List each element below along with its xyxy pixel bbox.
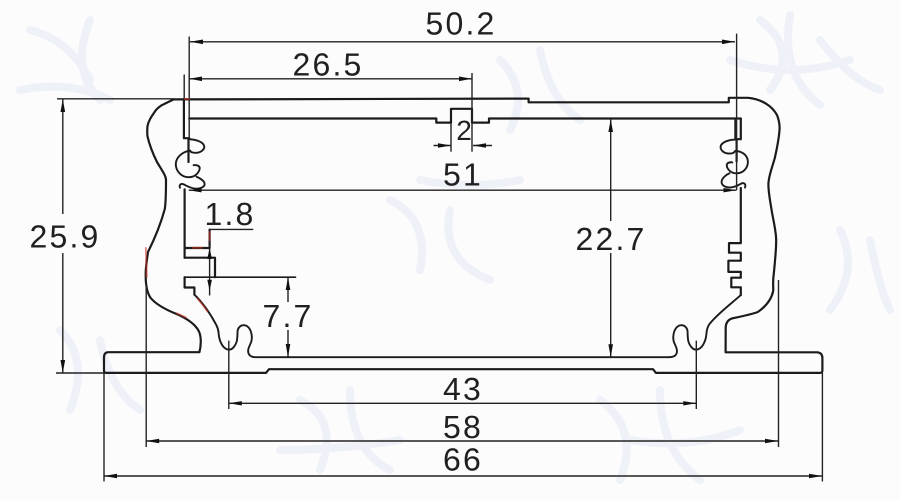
extension x=146.2 (58 left) bbox=[145, 279, 147, 447]
right hanging tab bbox=[735, 119, 740, 140]
extension bottom left horizontal bbox=[56, 372, 104, 374]
svg-text:43: 43 bbox=[443, 371, 483, 407]
25.9 arrows bbox=[61, 99, 66, 112]
left screw boss C (lower hook) bbox=[180, 177, 205, 189]
svg-text:51: 51 bbox=[443, 157, 483, 193]
dim 26.5 line bbox=[189, 78, 472, 80]
extension top left horizontal bbox=[57, 98, 174, 100]
dim 50.2 line bbox=[190, 41, 735, 43]
extension x=693.6 (43 right, boss centerline) bbox=[695, 341, 697, 409]
svg-text:22.7: 22.7 bbox=[575, 221, 646, 257]
outer wall left + top plate + outer wall right + bottom flange bbox=[104, 98, 822, 373]
left lower block bbox=[185, 258, 215, 278]
dim 2 lines bbox=[434, 145, 493, 147]
1.8 arrows bbox=[207, 248, 212, 259]
right screw boss C (upper hook) bbox=[721, 140, 737, 154]
51 arrows bbox=[189, 188, 202, 192]
58 arrows bbox=[146, 439, 159, 443]
66 arrows bbox=[104, 474, 117, 478]
svg-text:66: 66 bbox=[443, 442, 483, 478]
DIMENSIONS bbox=[56, 34, 822, 482]
extension x=472 bbox=[471, 73, 473, 152]
left screw boss C (main C) bbox=[176, 151, 200, 177]
svg-text:58: 58 bbox=[443, 409, 483, 445]
svg-text:2: 2 bbox=[456, 115, 472, 146]
22.7 arrows bbox=[608, 119, 613, 132]
extension x=229.4 (43 left, boss centerline) bbox=[228, 341, 230, 409]
svg-text:7.7: 7.7 bbox=[262, 298, 313, 334]
PROFILE OUTLINE bbox=[104, 98, 822, 373]
dim 7.7 line bbox=[287, 277, 289, 357]
block bottom + 7.7 extension bbox=[185, 276, 296, 278]
dim 43 line bbox=[229, 402, 697, 404]
svg-text:50.2: 50.2 bbox=[425, 6, 496, 42]
dim 22.7 line bbox=[610, 119, 612, 357]
left pcb rail ledge bbox=[185, 230, 210, 248]
dim 25.9 line bbox=[62, 99, 64, 373]
extension x=778.5 (58 right) bbox=[778, 280, 780, 447]
extension x=736.6 bbox=[736, 34, 738, 191]
top plate left tab (cover slot edge) bbox=[184, 99, 189, 138]
43 arrows bbox=[229, 401, 242, 405]
svg-text:25.9: 25.9 bbox=[29, 219, 100, 255]
left inner wall bbox=[184, 189, 186, 257]
2 arrows bbox=[438, 143, 451, 147]
inner top surface with center screw slot bbox=[189, 109, 741, 123]
right bottom screw boss (omega, mirrored) bbox=[669, 295, 741, 357]
extension x=189 bbox=[188, 37, 190, 139]
left small step + diagonal to bottom boss bbox=[185, 277, 195, 294]
dim 66 line bbox=[104, 475, 822, 477]
ARROWHEADS bbox=[61, 40, 823, 479]
left screw boss C (upper hook) bbox=[189, 139, 204, 153]
7.7 arrows bbox=[286, 277, 291, 290]
extension x=104 (66 left) bbox=[103, 373, 105, 482]
50.2 arrows bbox=[190, 40, 203, 45]
extension 1.8 corner bbox=[210, 229, 254, 295]
extension x=822 (66 right) bbox=[821, 373, 823, 482]
svg-text:1.8: 1.8 bbox=[204, 196, 255, 232]
left tab stem line into boss bbox=[187, 139, 189, 162]
dim 51 line bbox=[189, 189, 737, 191]
right inner wall with 3 rail tabs bbox=[728, 188, 740, 295]
jpeg red artifacts bbox=[146, 99, 210, 318]
left bottom screw boss (omega) bbox=[194, 295, 669, 358]
right screw boss C (main C) bbox=[727, 151, 748, 173]
dim 58 line bbox=[146, 440, 778, 442]
26.5 arrows bbox=[189, 77, 202, 82]
svg-text:26.5: 26.5 bbox=[292, 47, 363, 83]
extension x=451 bbox=[450, 123, 452, 152]
right tab stem line into boss bbox=[735, 139, 737, 161]
DIMENSION TEXTS bbox=[29, 6, 646, 478]
extension x=184 bbox=[183, 75, 185, 99]
right screw boss C (lower hook) bbox=[722, 173, 746, 187]
